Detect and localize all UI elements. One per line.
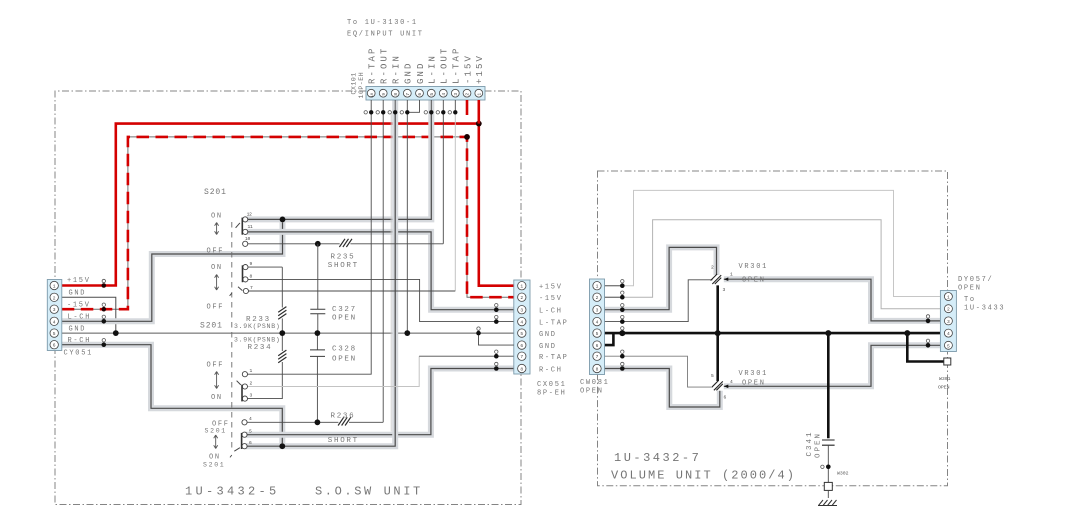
svg-text:+15V: +15V — [539, 284, 563, 292]
wire L-TAP CX101 pin3 to S201 pin7 row — [454, 112, 456, 290]
wire GND bus — [62, 332, 514, 334]
svg-text:8: 8 — [393, 93, 399, 96]
wire CW081 pin3 to VR301 top — [605, 247, 717, 309]
svg-text:2: 2 — [947, 307, 950, 313]
svg-text:ON: ON — [211, 264, 223, 272]
resistor R233 3.9K — [234, 267, 286, 333]
svg-text:VR301: VR301 — [739, 263, 769, 271]
svg-text:R234: R234 — [248, 344, 273, 352]
wire VR301 upper bottom to lower pot thick black — [716, 285, 719, 381]
svg-text:S201: S201 — [200, 322, 223, 331]
svg-text:1: 1 — [947, 295, 950, 301]
wire -15V red dashed: CY051 pin3 to CX101 pin2 to CX051 pin2 — [62, 137, 514, 309]
connector DY057 — [940, 291, 956, 352]
svg-text:OPEN: OPEN — [580, 388, 604, 396]
svg-text:1: 1 — [730, 272, 733, 278]
label To 1U-3433 — [964, 296, 1005, 313]
wire S201 pin8 row to CX051 pin4 — [245, 279, 513, 321]
resistor R236 SHORT — [328, 413, 359, 446]
wire W301 branch thick black — [907, 333, 944, 361]
svg-text:ON: ON — [209, 454, 221, 462]
svg-text:S201: S201 — [203, 462, 225, 469]
svg-text:3: 3 — [947, 319, 950, 325]
svg-text:CX101: CX101 — [351, 72, 358, 94]
svg-text:C327: C327 — [332, 306, 357, 314]
capacitor C341 OPEN — [806, 333, 835, 482]
svg-text:6: 6 — [724, 395, 727, 401]
svg-text:2: 2 — [250, 380, 253, 386]
To EQ/INPUT UNIT note — [347, 19, 424, 39]
labels CX101 pin names vertical — [368, 46, 486, 84]
svg-text:GND: GND — [539, 331, 557, 339]
svg-text:8: 8 — [250, 273, 253, 279]
svg-text:10P-EH: 10P-EH — [358, 72, 365, 99]
svg-text:R-CH: R-CH — [539, 366, 563, 374]
svg-text:3: 3 — [53, 307, 56, 313]
left unit border 1U-3432-5 — [55, 91, 521, 505]
svg-text:3: 3 — [520, 308, 523, 314]
resistor R234 3.9K — [234, 333, 286, 399]
svg-text:To 1U-3130-1: To 1U-3130-1 — [347, 19, 418, 27]
node CW081 GND join — [619, 327, 625, 337]
svg-text:4: 4 — [520, 320, 523, 326]
label CX101 10P-EH — [351, 72, 366, 99]
svg-text:GND: GND — [539, 343, 557, 351]
svg-text:9: 9 — [381, 93, 387, 96]
wire S201 pin6 row / R-IN from CX101 pin8 — [245, 100, 395, 446]
svg-text:4: 4 — [730, 379, 733, 385]
crimp W302 — [821, 465, 849, 477]
label DY057 OPEN — [958, 276, 993, 293]
wire VR301 upper wiper to DY057 pin3 — [724, 277, 941, 320]
svg-text:S201: S201 — [205, 428, 227, 435]
CW081 crimp joints — [620, 280, 625, 371]
node GND join — [113, 330, 119, 336]
svg-text:7: 7 — [520, 354, 523, 360]
wire R-CH thick: CY051 pin6 to S201 pin6 row — [62, 345, 282, 447]
switch S201 section4 pins 4 5 6 — [230, 416, 252, 457]
label CW081 OPEN — [580, 379, 610, 396]
svg-text:4: 4 — [249, 416, 252, 422]
svg-text:1: 1 — [596, 284, 599, 290]
ground — [818, 500, 837, 506]
wire CX051 pin6 GND elbow — [479, 333, 514, 345]
svg-text:L-IN: L-IN — [428, 54, 438, 84]
title left unit — [185, 485, 423, 499]
svg-text:7: 7 — [405, 93, 411, 96]
terminal square below C341 — [824, 482, 832, 498]
svg-text:10: 10 — [245, 236, 251, 242]
svg-text:R235: R235 — [331, 254, 356, 262]
svg-text:GND: GND — [69, 290, 87, 298]
node C327 C328 on bus — [315, 330, 321, 336]
svg-text:-15V: -15V — [67, 302, 91, 310]
svg-text:6: 6 — [596, 343, 599, 349]
svg-text:2: 2 — [596, 295, 599, 301]
svg-text:4: 4 — [596, 320, 599, 326]
switch S201 section3 pins 1 2 3 — [237, 368, 253, 401]
svg-text:R236: R236 — [331, 413, 356, 421]
connector CW081 — [590, 279, 605, 375]
svg-text:3: 3 — [596, 308, 599, 314]
wire S201 pin10 row with R235 to L-OUT — [245, 243, 443, 245]
svg-text:-15V: -15V — [463, 54, 473, 84]
DY057 crimp joints — [926, 315, 931, 348]
svg-text:2: 2 — [53, 295, 56, 301]
capacitor C327 OPEN — [310, 244, 357, 333]
svg-text:OPEN: OPEN — [958, 285, 982, 293]
svg-text:+15V: +15V — [67, 277, 91, 285]
svg-text:OPEN: OPEN — [742, 277, 766, 285]
svg-text:1U-3433: 1U-3433 — [964, 305, 1005, 313]
svg-text:OFF: OFF — [207, 304, 225, 312]
label CX051 8P-EH — [537, 381, 567, 398]
svg-text:6: 6 — [520, 343, 523, 349]
svg-text:11: 11 — [248, 224, 254, 230]
svg-text:12: 12 — [247, 211, 253, 217]
node +15V top junction — [476, 121, 482, 127]
svg-text:5: 5 — [429, 93, 435, 96]
svg-text:OFF: OFF — [207, 248, 225, 256]
svg-text:6: 6 — [249, 440, 252, 446]
node C341 on GND bus — [825, 330, 831, 336]
svg-text:GND: GND — [416, 61, 426, 84]
CX051 crimp joints — [476, 304, 498, 371]
potentiometer VR301 lower — [711, 370, 768, 401]
svg-text:L-CH: L-CH — [68, 313, 92, 321]
wire faint parallel R-IN — [390, 112, 392, 431]
wire CX101 pin6 GND join to pin7 — [407, 100, 419, 112]
svg-text:S.O.SW UNIT: S.O.SW UNIT — [315, 485, 423, 499]
svg-text:OPEN: OPEN — [938, 385, 950, 391]
svg-text:S201: S201 — [204, 188, 227, 197]
title right unit — [611, 451, 796, 483]
svg-text:5: 5 — [596, 331, 599, 337]
connector CY051 — [47, 280, 62, 351]
switch S201 section3 OFF ON arrow — [207, 362, 225, 403]
wire GND CX101 pin7 to GND bus — [406, 112, 408, 333]
CY051 crimp joints — [102, 279, 107, 347]
label CY051 — [64, 350, 94, 358]
wire GND bus thick CW081 pin5 to DY057 pin4 — [605, 332, 941, 335]
svg-text:4: 4 — [53, 319, 56, 325]
connector CX051 8P-EH — [514, 280, 530, 374]
wire S201 pin5 row to CX051 pin8 — [245, 369, 514, 435]
CX101 crimp joints — [364, 110, 457, 114]
node VR301 chain on GND bus — [715, 330, 721, 336]
svg-text:OFF: OFF — [207, 362, 225, 370]
svg-text:OPEN: OPEN — [742, 380, 766, 388]
svg-text:5: 5 — [711, 373, 714, 379]
wire +15V red: CY051 pin1 to CX101 pin1 to CX051 pin1 — [62, 124, 514, 286]
svg-text:1: 1 — [520, 284, 523, 290]
svg-text:SHORT: SHORT — [328, 262, 359, 270]
node L-CH to pin12 row — [280, 217, 286, 223]
svg-text:EQ/INPUT UNIT: EQ/INPUT UNIT — [347, 31, 424, 39]
switch S201 section4 OFF ON arrow — [203, 421, 230, 469]
wire CW081 pin1 to DY057 pin1 — [605, 190, 941, 296]
svg-text:L-TAP: L-TAP — [539, 319, 569, 327]
svg-text:5: 5 — [520, 331, 523, 337]
switch S201 section2 ON OFF arrow — [207, 264, 225, 312]
svg-text:VOLUME UNIT (2000/4): VOLUME UNIT (2000/4) — [611, 469, 796, 483]
svg-text:5: 5 — [249, 428, 252, 434]
node R233 R234 on bus — [279, 330, 285, 336]
svg-text:8: 8 — [596, 367, 599, 373]
wire S201 pin12 row / L-IN from CX101 pin5 — [245, 100, 431, 219]
wire S201 pin11 row to CX051 pin3 — [245, 232, 514, 310]
node C327 tap on pin10 row — [315, 241, 321, 247]
svg-text:1U-3432-5: 1U-3432-5 — [185, 485, 280, 499]
wire CW081 pin2 to DY057 pin2 — [605, 220, 941, 309]
wire VR301 lower wiper to DY057 pin5 — [724, 345, 941, 388]
svg-text:+15V: +15V — [475, 54, 485, 84]
switch S201 section1 ON OFF arrow — [207, 213, 225, 256]
svg-text:W302: W302 — [837, 471, 849, 477]
svg-text:OPEN: OPEN — [332, 356, 357, 364]
wire CW081 pin4 to VR301 left — [605, 280, 713, 322]
svg-text:5: 5 — [53, 331, 56, 337]
wire CW081 pin6 GND elbow — [605, 333, 614, 345]
node W301 branch on GND bus — [904, 330, 910, 336]
wire S201 pin9 to R233 — [245, 266, 282, 268]
svg-text:5: 5 — [947, 343, 950, 349]
svg-text:OPEN: OPEN — [332, 315, 357, 323]
svg-text:6: 6 — [417, 93, 423, 96]
node -15V top junction — [464, 134, 470, 140]
svg-text:CW081: CW081 — [580, 379, 610, 387]
svg-text:R-OUT: R-OUT — [380, 46, 390, 84]
svg-text:R-TAP: R-TAP — [368, 46, 378, 84]
svg-text:3: 3 — [453, 93, 459, 96]
svg-text:L-OUT: L-OUT — [440, 46, 450, 84]
node C328 tap on R236 row — [315, 419, 321, 425]
wire CW081 pin8 to VR301 lower bottom — [605, 369, 720, 408]
svg-text:1: 1 — [250, 368, 253, 374]
wire R-OUT CX101 pin9 to R236 row — [382, 112, 384, 422]
svg-text:7: 7 — [596, 354, 599, 360]
svg-text:R-CH: R-CH — [68, 337, 92, 345]
svg-text:GND: GND — [404, 61, 414, 84]
svg-text:2: 2 — [520, 295, 523, 301]
wire R-TAP CX101 pin10 to S201 pin1 — [245, 112, 371, 374]
wire S201 pin2 row to CX051 pin7 — [245, 356, 514, 386]
wire GND CY051 pin2 to GND bus — [62, 297, 116, 333]
switch S201 mechanical dashed link — [231, 222, 233, 452]
labels CY051 pin names — [67, 277, 91, 345]
svg-text:C341: C341 — [806, 430, 814, 456]
switch S201 section1 pins 12 11 10 — [236, 211, 253, 246]
wire S201 pin4 row with R236 to R-OUT — [245, 421, 384, 423]
svg-text:OPEN: OPEN — [815, 432, 823, 458]
svg-text:3: 3 — [250, 392, 253, 398]
svg-text:DY057/: DY057/ — [958, 276, 993, 284]
svg-text:L-TAP: L-TAP — [452, 46, 462, 84]
svg-text:8P-EH: 8P-EH — [537, 390, 567, 398]
svg-text:R-TAP: R-TAP — [539, 354, 569, 362]
svg-text:4: 4 — [441, 93, 447, 96]
svg-text:C328: C328 — [332, 346, 357, 354]
svg-text:3.9K(PSNB): 3.9K(PSNB) — [234, 337, 281, 344]
svg-text:4: 4 — [947, 331, 950, 337]
svg-text:2: 2 — [465, 93, 471, 96]
wire L-OUT CX101 pin4 to S201 pin10 row — [442, 112, 444, 244]
svg-text:CX051: CX051 — [537, 381, 567, 389]
node GND CX101 on bus — [404, 330, 410, 336]
svg-text:ON: ON — [211, 394, 223, 402]
switch S201 section2 pins 9 8 7 — [230, 261, 253, 296]
wires CX101 pins to crimp joints — [371, 100, 479, 124]
wire L-CH thick: CY051 pin4 to S201 pin12 row — [62, 219, 283, 321]
terminal W301 OPEN — [938, 358, 951, 391]
svg-text:CY051: CY051 — [64, 350, 94, 358]
svg-text:R-IN: R-IN — [392, 54, 402, 84]
svg-text:To: To — [964, 296, 976, 304]
svg-text:1U-3432-7: 1U-3432-7 — [614, 451, 701, 465]
svg-text:3.9K(PSNB): 3.9K(PSNB) — [234, 323, 281, 330]
wire CW081 pin7 to VR301 lower left — [605, 356, 714, 387]
resistor R235 SHORT — [328, 239, 359, 270]
svg-text:8: 8 — [520, 367, 523, 373]
connector CX101 10P-EH — [366, 87, 485, 101]
svg-text:GND: GND — [69, 325, 87, 333]
right unit border 1U-3432-7 — [598, 171, 948, 486]
switch S201 label middle — [200, 322, 223, 331]
svg-text:L-CH: L-CH — [539, 308, 563, 316]
node R-CH to pin6 row — [279, 443, 285, 449]
capacitor C328 OPEN — [310, 333, 357, 422]
svg-text:W301: W301 — [939, 376, 951, 382]
svg-text:VR301: VR301 — [739, 370, 769, 378]
svg-text:6: 6 — [53, 343, 56, 349]
wire S201 pin7 row to L-TAP — [246, 290, 455, 292]
svg-text:-15V: -15V — [539, 295, 563, 303]
switch S201 label top — [204, 188, 227, 197]
labels CX051 pin names — [539, 284, 569, 375]
potentiometer VR301 upper — [711, 263, 768, 293]
svg-text:3: 3 — [723, 287, 726, 293]
svg-text:2: 2 — [711, 265, 714, 271]
svg-text:SHORT: SHORT — [328, 437, 359, 445]
svg-text:1: 1 — [477, 93, 483, 96]
svg-text:9: 9 — [250, 261, 253, 267]
svg-text:1: 1 — [53, 284, 56, 290]
svg-text:ON: ON — [211, 213, 223, 221]
svg-text:7: 7 — [250, 285, 253, 291]
